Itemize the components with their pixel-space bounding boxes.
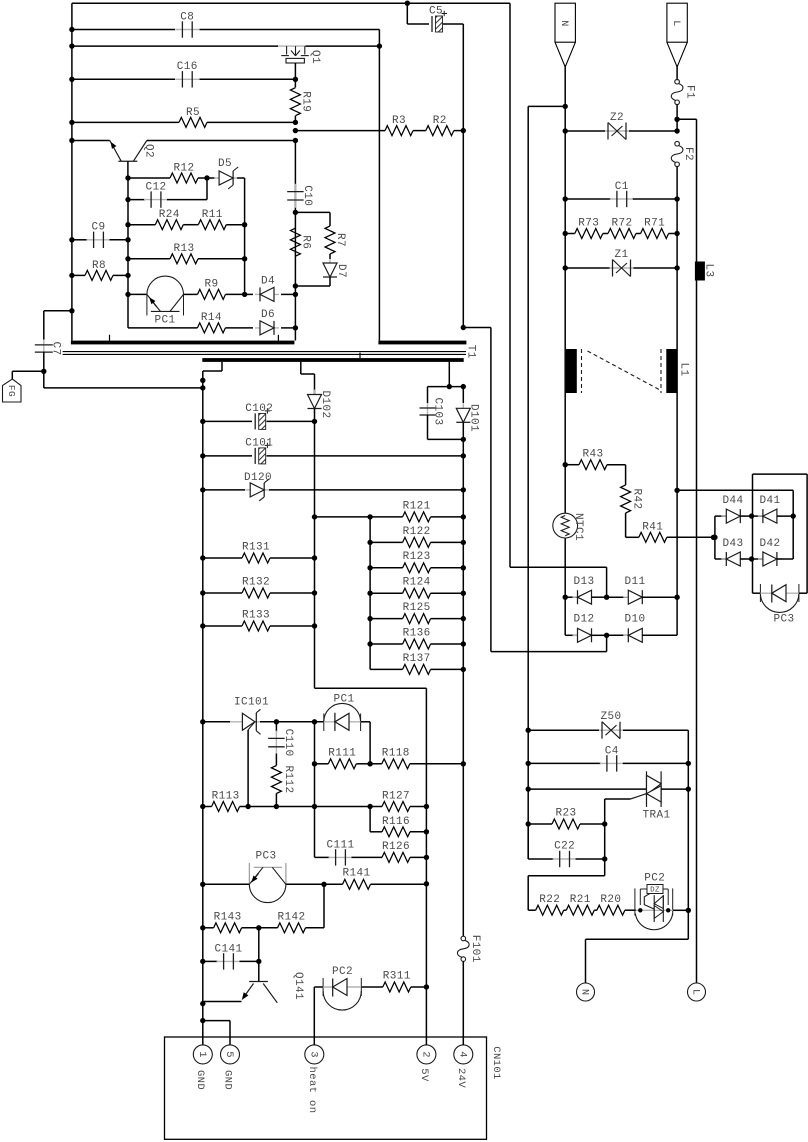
- svg-text:R73: R73: [578, 217, 599, 229]
- svg-text:R19: R19: [300, 91, 312, 112]
- svg-text:C101: C101: [245, 438, 273, 450]
- svg-text:R125: R125: [403, 602, 431, 614]
- svg-text:L: L: [670, 20, 681, 26]
- svg-text:R11: R11: [202, 209, 223, 221]
- svg-text:C4: C4: [605, 745, 619, 757]
- svg-text:F2: F2: [682, 147, 694, 161]
- svg-text:D41: D41: [759, 495, 780, 507]
- svg-text:D13: D13: [573, 576, 594, 588]
- svg-text:CN101: CN101: [490, 1046, 502, 1080]
- svg-text:C7: C7: [50, 341, 62, 355]
- svg-text:Z1: Z1: [614, 249, 628, 261]
- svg-text:R143: R143: [214, 911, 242, 923]
- svg-text:L1: L1: [678, 362, 690, 376]
- svg-text:D7: D7: [335, 264, 347, 278]
- svg-text:R41: R41: [642, 521, 663, 533]
- svg-text:C22: C22: [554, 840, 575, 852]
- svg-text:TRA1: TRA1: [642, 809, 670, 821]
- svg-text:3: 3: [308, 1051, 320, 1058]
- svg-text:C1: C1: [615, 181, 629, 193]
- svg-text:R122: R122: [403, 526, 431, 538]
- svg-text:D120: D120: [244, 472, 272, 484]
- svg-text:T1: T1: [464, 345, 476, 359]
- svg-text:D12: D12: [573, 614, 594, 626]
- svg-text:R141: R141: [342, 867, 370, 879]
- svg-text:PC2: PC2: [644, 872, 665, 884]
- svg-text:R121: R121: [403, 500, 431, 512]
- svg-text:R5: R5: [186, 107, 200, 119]
- svg-text:R124: R124: [403, 577, 431, 589]
- svg-text:C103: C103: [432, 397, 444, 425]
- svg-text:R113: R113: [212, 790, 240, 802]
- svg-text:D102: D102: [319, 390, 331, 418]
- svg-text:N: N: [558, 20, 569, 26]
- svg-text:R2: R2: [433, 115, 447, 127]
- svg-text:D5: D5: [218, 158, 232, 170]
- svg-text:PC2: PC2: [332, 966, 353, 978]
- svg-text:R22: R22: [539, 894, 560, 906]
- svg-text:R71: R71: [644, 217, 665, 229]
- svg-text:C10: C10: [301, 185, 313, 206]
- svg-text:R123: R123: [403, 551, 431, 563]
- svg-text:C16: C16: [177, 61, 198, 73]
- svg-text:1: 1: [196, 1051, 208, 1058]
- svg-text:GND: GND: [221, 1070, 233, 1090]
- svg-text:L3: L3: [703, 263, 715, 277]
- svg-text:C8: C8: [180, 11, 194, 23]
- svg-text:F101: F101: [469, 935, 481, 963]
- svg-text:4: 4: [457, 1051, 469, 1058]
- svg-text:R14: R14: [201, 312, 222, 324]
- svg-text:D10: D10: [624, 614, 645, 626]
- svg-text:R12: R12: [173, 162, 194, 174]
- svg-text:2: 2: [420, 1051, 432, 1058]
- svg-text:5: 5: [223, 1051, 235, 1058]
- svg-text:24V: 24V: [455, 1068, 467, 1088]
- svg-text:D43: D43: [722, 538, 743, 550]
- svg-text:F1: F1: [684, 85, 696, 99]
- svg-text:R9: R9: [204, 278, 218, 290]
- svg-text:Z2: Z2: [610, 112, 624, 124]
- svg-text:R23: R23: [555, 807, 576, 819]
- svg-text:L: L: [689, 989, 700, 995]
- svg-text:heat on: heat on: [306, 1067, 318, 1114]
- svg-text:R131: R131: [242, 541, 270, 553]
- svg-text:N: N: [578, 989, 589, 995]
- svg-text:NTC1: NTC1: [572, 513, 584, 541]
- svg-text:R126: R126: [382, 841, 410, 853]
- svg-text:C102: C102: [245, 403, 273, 415]
- svg-text:R118: R118: [382, 747, 410, 759]
- svg-text:C110: C110: [282, 729, 294, 757]
- svg-text:D42: D42: [759, 538, 780, 550]
- svg-text:R72: R72: [611, 217, 632, 229]
- svg-text:R136: R136: [403, 627, 431, 639]
- svg-text:R24: R24: [159, 209, 180, 221]
- svg-text:R137: R137: [403, 653, 431, 665]
- svg-text:GND: GND: [194, 1070, 206, 1090]
- svg-text:R13: R13: [173, 243, 194, 255]
- svg-text:R21: R21: [570, 894, 591, 906]
- svg-text:Q141: Q141: [292, 972, 304, 1000]
- svg-text:PC3: PC3: [773, 613, 794, 625]
- svg-text:FG: FG: [6, 385, 17, 397]
- svg-text:D101: D101: [468, 404, 480, 432]
- svg-text:IC101: IC101: [234, 696, 269, 708]
- svg-text:R112: R112: [282, 765, 294, 793]
- svg-text:D11: D11: [624, 576, 645, 588]
- svg-text:R8: R8: [92, 260, 106, 272]
- svg-text:R6: R6: [300, 235, 312, 249]
- svg-text:D6: D6: [261, 309, 275, 321]
- svg-text:R111: R111: [328, 747, 356, 759]
- svg-text:PC3: PC3: [255, 850, 276, 862]
- svg-text:R7: R7: [334, 233, 346, 247]
- svg-text:Q2: Q2: [143, 144, 155, 158]
- svg-text:R116: R116: [382, 816, 410, 828]
- svg-text:R311: R311: [383, 970, 411, 982]
- svg-text:C9: C9: [91, 222, 105, 234]
- svg-text:DZ: DZ: [650, 886, 660, 894]
- svg-text:D44: D44: [722, 495, 743, 507]
- svg-text:R132: R132: [242, 576, 270, 588]
- svg-text:R42: R42: [631, 488, 643, 509]
- svg-text:R127: R127: [382, 790, 410, 802]
- svg-text:PC1: PC1: [333, 694, 354, 706]
- svg-text:R3: R3: [392, 115, 406, 127]
- svg-text:D4: D4: [261, 275, 275, 287]
- svg-text:Q1: Q1: [309, 50, 321, 64]
- svg-text:R142: R142: [277, 911, 305, 923]
- svg-text:C141: C141: [214, 943, 242, 955]
- svg-text:C111: C111: [326, 839, 354, 851]
- svg-text:R133: R133: [242, 609, 270, 621]
- svg-text:C5: C5: [429, 5, 443, 17]
- svg-text:C12: C12: [145, 182, 166, 194]
- svg-text:R20: R20: [600, 894, 621, 906]
- svg-text:PC1: PC1: [154, 314, 175, 326]
- svg-text:R43: R43: [582, 449, 603, 461]
- svg-text:5V: 5V: [418, 1068, 430, 1082]
- svg-text:Z50: Z50: [600, 711, 621, 723]
